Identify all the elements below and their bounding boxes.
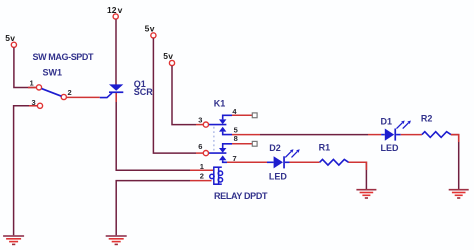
wire SW1 pin2 to SCR gate — [67, 96, 100, 98]
svg-text:RELAY DPDT: RELAY DPDT — [214, 191, 268, 201]
wire 12v terminal to SCR anode — [115, 19, 117, 84]
ground (bottom-middle) — [106, 236, 127, 244]
terminal 5v (to relay pin6) — [145, 24, 156, 39]
svg-text:SCR: SCR — [134, 87, 154, 97]
ground (below R1) — [356, 190, 376, 198]
relay K1 pin 2 stub — [200, 171, 204, 180]
node pin 6 — [198, 142, 208, 156]
svg-text:LED: LED — [269, 172, 288, 182]
relay K1 pin 1 stub — [200, 162, 204, 171]
node pin 3 — [198, 116, 208, 128]
wire R1 to ground — [349, 162, 367, 189]
terminal 5v (top-left) — [5, 33, 16, 47]
svg-text:LED: LED — [381, 143, 400, 153]
svg-text:v: v — [118, 5, 123, 15]
relay coil K1 — [210, 167, 223, 184]
wire R2 to ground — [451, 135, 459, 189]
svg-text:D2: D2 — [269, 143, 281, 153]
svg-text:1: 1 — [30, 78, 34, 87]
relay K1 — [214, 99, 226, 109]
resistor R2 — [421, 114, 451, 138]
pin 4 open square — [252, 113, 257, 118]
resistor R1 — [319, 143, 349, 165]
svg-text:2: 2 — [68, 88, 72, 97]
wire 5v to relay pin6 — [153, 38, 196, 153]
terminal 5v (to relay pin3) — [163, 51, 174, 66]
svg-text:R1: R1 — [319, 143, 331, 153]
wire SW1 pin3 to ground — [14, 106, 38, 236]
svg-text:3: 3 — [198, 116, 202, 125]
relay K1 pin 8 lead and stub — [223, 134, 253, 148]
relay contact 1 (pins 3-4-5) — [209, 119, 227, 131]
transistor Q1 SCR — [100, 79, 154, 98]
wire D1 to R2 — [401, 134, 422, 136]
svg-text:v: v — [168, 51, 173, 61]
svg-text:1: 1 — [200, 162, 204, 171]
terminal 12v — [107, 5, 123, 19]
svg-text:K1: K1 — [214, 99, 226, 109]
diode D1 (LED) — [381, 117, 411, 154]
relay K1 pin 5 lead — [223, 126, 238, 135]
switch SW1 — [30, 52, 95, 108]
relay K1 pin 7 lead — [223, 154, 237, 163]
svg-text:SW MAG-SPDT: SW MAG-SPDT — [33, 52, 95, 62]
ground (bottom-left) — [3, 236, 24, 244]
relay K1 pin 4 lead and stub — [223, 107, 253, 119]
svg-text:6: 6 — [198, 142, 202, 151]
svg-text:v: v — [10, 33, 15, 43]
ground (below R2) — [449, 190, 469, 198]
relay contact 2 (pins 6-8-7) — [209, 148, 227, 160]
svg-text:R2: R2 — [421, 114, 433, 124]
svg-text:2: 2 — [200, 171, 204, 180]
wire pin7 to D2 — [227, 161, 267, 163]
svg-text:SW1: SW1 — [43, 68, 63, 78]
svg-text:8: 8 — [234, 134, 238, 143]
pin 8 open square — [252, 141, 257, 146]
wire D2 to R1 — [290, 161, 320, 163]
mechanical link (dashed) — [213, 127, 215, 151]
diode D2 (LED) — [267, 143, 300, 181]
svg-text:D1: D1 — [381, 117, 393, 127]
wire SCR cathode to relay coil pin1 — [116, 93, 190, 170]
wire 5v terminal to SW1 pin1 — [14, 48, 36, 88]
svg-text:v: v — [150, 24, 155, 34]
wire pin5 to D1 — [232, 134, 381, 136]
wire 5v to relay pin3 — [172, 66, 196, 125]
wire relay coil pin2 to ground — [190, 180, 212, 182]
